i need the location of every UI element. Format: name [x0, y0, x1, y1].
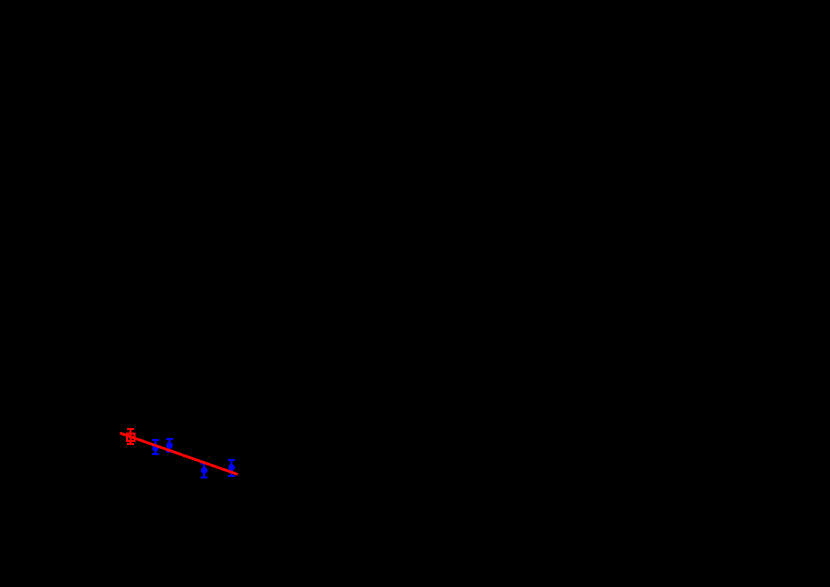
data point 3 error bar (blue): [201, 464, 208, 478]
fit line (red): [120, 433, 238, 474]
data point 1 marker (blue circle): [152, 445, 159, 452]
data point 4 error bar (blue): [228, 460, 235, 476]
data point 4 marker (blue circle): [228, 464, 235, 471]
reference point error bar (red): [127, 429, 134, 444]
data point 2 error bar (blue): [166, 439, 173, 452]
data point 2 marker (blue circle): [166, 442, 173, 449]
data point 3 marker (blue circle): [201, 467, 208, 474]
reference point marker (red open square): [127, 433, 135, 441]
data point 1 error bar (blue): [152, 440, 159, 454]
